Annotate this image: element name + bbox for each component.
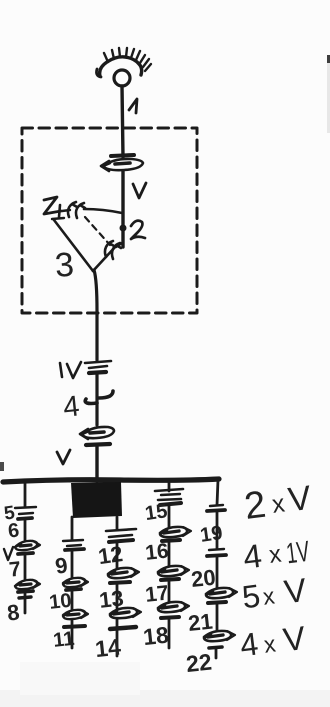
svg-text:8: 8	[6, 600, 21, 626]
wire	[168, 542, 171, 566]
wire	[71, 591, 74, 610]
wire below 1V cell	[95, 374, 98, 425]
wire from switch down out of box	[94, 270, 97, 360]
cell 5 plates	[15, 507, 36, 519]
label 12	[97, 541, 125, 569]
bus bar	[3, 479, 219, 482]
svg-text:15: 15	[144, 500, 169, 525]
svg-text:12: 12	[97, 541, 125, 569]
value label 4 x V	[238, 619, 307, 663]
svg-text:18: 18	[142, 622, 170, 651]
swirl cell 17	[158, 566, 189, 580]
chain 2 wire from black box	[71, 517, 74, 540]
label 7	[8, 558, 22, 582]
label 10	[48, 590, 72, 614]
cell 19 plates	[207, 505, 225, 511]
label 1V	[60, 362, 81, 378]
swirl cell 16	[160, 527, 191, 541]
cell 8 plate	[19, 593, 31, 613]
swirl cell 6	[15, 541, 40, 554]
wire	[24, 555, 27, 580]
label 20	[190, 565, 217, 592]
value label 5 x V	[240, 571, 308, 615]
svg-text:V: V	[282, 571, 308, 610]
chain 4 wire	[168, 482, 171, 491]
label 21	[187, 609, 214, 636]
cell 12 plates	[106, 529, 136, 542]
swirl cell 21	[206, 588, 237, 603]
label 5	[3, 502, 17, 524]
cell 15 plates	[155, 489, 183, 505]
hook support hatching	[97, 48, 152, 77]
wire	[168, 581, 171, 602]
wire	[24, 520, 27, 540]
wire	[216, 512, 219, 548]
label 15	[144, 500, 169, 525]
svg-text:4: 4	[62, 390, 81, 424]
wire	[116, 584, 119, 608]
cell symbol V (top, inside box)	[101, 155, 143, 171]
value label 2 x V	[242, 479, 313, 528]
wire	[216, 604, 219, 631]
wire	[168, 504, 171, 527]
label 2 (top-left of switch)	[44, 197, 61, 214]
wire to bus bar	[95, 446, 98, 481]
switch left side bar	[52, 218, 93, 271]
cell 20 plates	[207, 549, 226, 556]
wire	[116, 543, 119, 568]
swirl cell 10	[63, 578, 88, 590]
label 17	[144, 582, 170, 607]
cell symbol V (lower)	[80, 427, 114, 445]
label 19	[199, 522, 224, 547]
label 2 (right of node)	[131, 221, 145, 239]
svg-text:3: 3	[54, 246, 76, 285]
swirl cell 22	[204, 631, 235, 658]
svg-text:14: 14	[94, 634, 122, 663]
cell 9 plates	[63, 540, 84, 550]
svg-text:20: 20	[190, 565, 217, 592]
label 3	[54, 246, 76, 285]
hook ring	[114, 70, 130, 86]
label 8	[6, 600, 21, 626]
swirl cell 18	[158, 602, 189, 648]
switch blade lower with contact hatches	[93, 241, 122, 271]
label 14	[94, 634, 122, 663]
svg-text:6: 6	[7, 520, 20, 543]
value label 4 x 1V	[241, 536, 312, 576]
svg-text:16: 16	[144, 540, 170, 565]
svg-text:V: V	[281, 619, 307, 658]
svg-text:11: 11	[52, 628, 75, 652]
connector 4 (hooks)	[85, 391, 113, 404]
label 4	[62, 390, 81, 424]
wire from cell to node 2	[121, 171, 124, 247]
black box (filled block under bar)	[71, 482, 122, 518]
swirl cell 7	[15, 580, 40, 592]
label 6	[7, 520, 20, 543]
battery cell 1V	[85, 361, 111, 373]
swirl cell 13	[108, 568, 139, 583]
chain 3 wire from black box	[116, 517, 119, 530]
svg-text:22: 22	[185, 649, 213, 678]
chain 1 wire	[24, 483, 27, 506]
wire	[216, 557, 219, 588]
label 16	[144, 540, 170, 565]
label 9	[54, 552, 70, 578]
wire from ring down to box	[122, 86, 123, 157]
label V (lower cell)	[57, 450, 70, 464]
wire	[71, 551, 74, 578]
dashed mechanical link	[85, 217, 110, 245]
svg-text:7: 7	[8, 558, 22, 582]
label 13	[98, 585, 125, 612]
label 1	[129, 99, 137, 113]
chain 5 wire from bar end	[217, 480, 218, 505]
swirl cell 14	[110, 608, 141, 656]
swirl cell 11	[63, 610, 88, 648]
label 11	[52, 628, 75, 652]
svg-text:19: 19	[199, 522, 224, 547]
node 2 dot	[120, 225, 126, 231]
label 22	[185, 649, 213, 678]
label V (top cell)	[133, 183, 146, 198]
label V (chain1)	[4, 547, 13, 560]
svg-text:1V: 1V	[285, 536, 312, 571]
label 18	[142, 622, 170, 651]
switch blade upper with contact hatches	[59, 202, 122, 218]
dashed enclosure box	[22, 128, 197, 313]
